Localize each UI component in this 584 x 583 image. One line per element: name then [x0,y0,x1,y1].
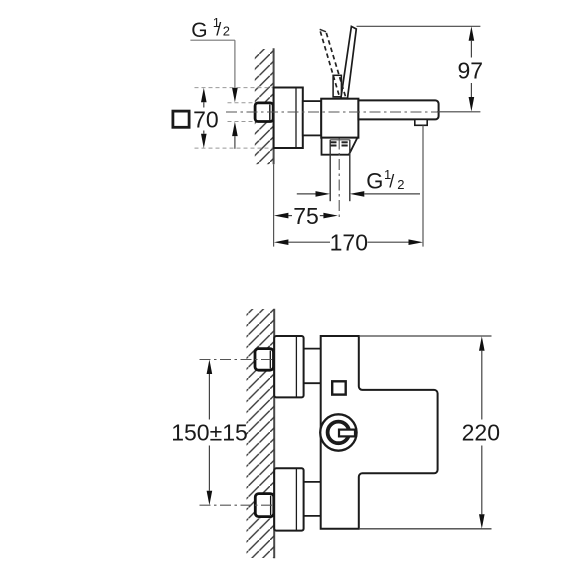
extension line body bottom (220) [359,528,492,530]
svg-text:97: 97 [458,58,484,84]
extension line spout centerline right (97) [437,111,480,113]
leader line G 1/2 top [190,40,235,88]
extension line (pipe top, dashed) [228,102,258,104]
shower outlet thread [330,140,350,202]
dimension text 70 [193,106,219,132]
centerline (top view) [226,111,440,113]
lever handle (open, dashed) [320,29,346,96]
svg-text:2: 2 [223,24,230,39]
svg-text:G: G [191,19,207,42]
lever handle (closed, solid) [341,26,356,98]
lower connection stub [304,482,321,516]
lower union nut [255,494,273,517]
spout [358,100,438,119]
extension line aerator (170 right) [422,125,424,246]
mousseur square button [332,381,346,394]
svg-text:70: 70 [193,106,219,132]
svg-text:2: 2 [397,177,404,192]
wall hatching (bottom view) [247,309,275,558]
control knob circle [320,414,356,450]
svg-text:/: / [389,172,394,192]
lower escutcheon plate [274,468,303,530]
upper connection stub [304,349,321,384]
shower outlet block [322,138,358,155]
connection pipe (top view) [303,101,321,135]
label G 1/2 (shower outlet) [366,167,404,194]
lever hub [333,75,341,97]
arrow G1/2 up at pipe bottom [232,122,238,149]
dimension 170 [274,229,423,255]
dimension 150±15 [171,360,248,506]
extension line body top (220) [359,335,492,337]
label G 1/2 (wall union) [191,15,230,42]
upper escutcheon plate [274,336,303,397]
mixer body silhouette (bottom view) [321,336,438,529]
upper union nut [255,349,274,371]
svg-text:220: 220 [462,420,500,446]
dimension G1/2 left arrow [297,191,330,197]
extension line (escutcheon bottom, dashed) [195,147,274,149]
svg-text:170: 170 [330,229,368,255]
dimension 70 arrow up [201,88,207,108]
extension line lever top (97) [357,25,481,27]
union nut behind wall (top view) [255,103,273,122]
extension line (pipe bottom, dashed) [228,121,258,123]
wall (top view) [273,48,275,246]
shower outlet centerline [338,139,340,220]
dimension 75 [274,203,338,229]
svg-text:75: 75 [293,203,319,229]
wall hatching (top view) [255,49,274,164]
dimension G1/2 right arrow [350,191,420,197]
svg-text:150±15: 150±15 [171,420,248,446]
wall (bottom view) [273,309,275,559]
centerline upper union [200,359,277,361]
svg-text:/: / [216,20,221,40]
dimension 97 [458,26,484,111]
extension line (escutcheon top, dashed) [195,87,274,89]
dimension 220 [462,336,500,529]
centerline lower union [200,504,277,506]
aerator outlet [415,119,427,125]
square symbol of dimension 70 [173,111,189,127]
escutcheon (top view) [274,88,303,149]
mixer body (top view) [321,99,358,138]
svg-text:G: G [366,169,383,194]
arrow G1/2 down at pipe top [232,88,238,103]
dimension 70 arrow down [201,131,207,149]
